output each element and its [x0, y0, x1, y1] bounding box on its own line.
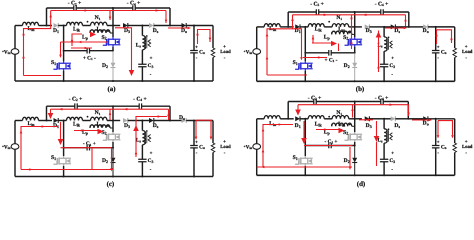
- red current arrow: [59, 55, 62, 58]
- svg-text:+: +: [437, 45, 440, 50]
- wire: red current path: [359, 119, 373, 121]
- capacitor C2: [74, 5, 76, 11]
- wire: red current path: [316, 129, 342, 131]
- red current arrow: [266, 33, 269, 36]
- svg-text:D3: D3: [124, 123, 130, 129]
- wire: red current path: [304, 145, 353, 147]
- wire: red current path: [267, 15, 293, 75]
- diode D2: [112, 148, 114, 158]
- capacitor C4: [133, 5, 135, 11]
- svg-text:+Vin: +Vin: [2, 144, 11, 150]
- wire: red current path: [74, 130, 101, 132]
- wire: red current path: [437, 30, 452, 44]
- svg-text:Ds: Ds: [153, 123, 159, 129]
- switch S2: [103, 42, 107, 45]
- wire: red current path: [109, 109, 111, 120]
- red current arrow (wide): [301, 138, 307, 144]
- red current arrow: [196, 32, 199, 35]
- red current arrow: [20, 130, 23, 133]
- svg-text:S2: S2: [343, 35, 348, 41]
- diode Do: [182, 118, 187, 123]
- wire: input row: [15, 25, 23, 27]
- svg-text:- C4 +: - C4 +: [375, 95, 389, 101]
- svg-text:+: +: [223, 45, 226, 50]
- red current arrow: [407, 113, 410, 116]
- svg-text:+Vin: +Vin: [244, 49, 253, 55]
- diode D1: [295, 24, 300, 29]
- svg-text:+: +: [150, 57, 153, 62]
- switch S1: [295, 66, 299, 69]
- capacitor Co: [432, 51, 440, 53]
- red current arrow (wide): [295, 110, 301, 116]
- svg-text:N1: N1: [336, 15, 342, 21]
- svg-text:+Vin: +Vin: [244, 144, 253, 150]
- svg-text:Ds: Ds: [394, 28, 400, 34]
- red current arrow: [363, 14, 366, 17]
- red current arrow: [49, 14, 52, 17]
- svg-text:Llk: Llk: [73, 121, 81, 127]
- red current arrow (wide): [48, 113, 54, 119]
- svg-text:+: +: [223, 140, 226, 145]
- capacitor C3: [138, 64, 146, 66]
- capacitor Co: [190, 146, 198, 148]
- red current arrow: [135, 151, 138, 154]
- capacitor C1: [329, 50, 331, 56]
- wire: secondary branch: [141, 26, 143, 36]
- red current arrow: [79, 129, 82, 132]
- red current arrow: [195, 137, 198, 140]
- svg-text:Do: Do: [181, 28, 187, 34]
- red current arrow: [435, 33, 438, 36]
- wire: load branch: [454, 119, 456, 143]
- svg-text:S1: S1: [51, 155, 56, 161]
- wire: red current path: [210, 120, 212, 137]
- voltage source Vin: [253, 144, 261, 150]
- resistor Load: [453, 48, 457, 58]
- sub-circuit (a): [2, 1, 231, 93]
- red current arrow: [451, 135, 454, 138]
- wire: red current path: [376, 121, 378, 137]
- red current arrow: [156, 9, 159, 12]
- inductor Lin: [23, 117, 39, 120]
- wire: left vertical with source: [14, 121, 16, 144]
- switch S1: [53, 66, 57, 69]
- svg-text:D3: D3: [366, 123, 372, 129]
- svg-text:D2: D2: [102, 63, 108, 69]
- diode Do: [423, 116, 428, 121]
- wire: red current path: [378, 31, 380, 73]
- svg-text:D1: D1: [53, 28, 59, 34]
- red current arrow: [262, 149, 265, 152]
- svg-text:(b): (b): [356, 86, 364, 93]
- wire: red current path: [293, 29, 302, 58]
- svg-text:Lm: Lm: [338, 122, 346, 128]
- svg-text:S2: S2: [101, 130, 106, 136]
- wire: C1 row: [305, 52, 329, 54]
- inductor Ls (secondary winding): [384, 129, 387, 143]
- wire: red current path: [338, 44, 340, 52]
- wire: red current path: [109, 11, 111, 21]
- red current arrow: [158, 115, 161, 118]
- svg-text:Llk: Llk: [315, 26, 323, 32]
- svg-text:N1: N1: [95, 15, 101, 21]
- wire: top rail with C2 and C4: [288, 11, 316, 13]
- wire: red current path: [437, 121, 439, 135]
- wire: red current path: [72, 34, 82, 46]
- inductor Lin: [264, 24, 280, 27]
- capacitor C4: [139, 103, 141, 109]
- sub-circuit (d): [244, 95, 473, 188]
- red current arrow (wide): [376, 32, 382, 38]
- red current arrow: [368, 119, 371, 122]
- svg-text:- C2 +: - C2 +: [308, 95, 322, 101]
- wire: S1 branch: [304, 27, 306, 61]
- wire: transformer-right vertical: [112, 106, 114, 132]
- svg-text:Lm: Lm: [96, 27, 104, 33]
- red current arrow: [349, 167, 352, 170]
- wire: red current path: [257, 166, 352, 168]
- wire: red current path: [60, 122, 62, 142]
- inductor Ls (secondary winding): [384, 37, 387, 51]
- svg-text:Lm: Lm: [96, 122, 104, 128]
- diode D2: [354, 146, 356, 158]
- svg-text:(d): (d): [357, 181, 365, 188]
- sub-circuit (c): [2, 96, 231, 188]
- wire: S1 branch: [304, 119, 306, 156]
- svg-text:+: +: [465, 140, 468, 145]
- wire: top rail with C2 and C4: [47, 105, 75, 107]
- svg-text:D2: D2: [344, 158, 350, 164]
- wire: red current path: [60, 42, 62, 55]
- wire: red current path: [303, 121, 305, 141]
- red current arrow: [351, 108, 354, 111]
- wire: bottom rail: [15, 176, 213, 178]
- svg-text:+: +: [391, 57, 394, 62]
- wire: red current path: [136, 117, 167, 158]
- wire: red current path: [438, 121, 453, 135]
- capacitor C2: [75, 103, 77, 109]
- red current arrow: [110, 168, 113, 171]
- wire: red current path: [408, 105, 410, 116]
- wire: red current path: [195, 120, 197, 137]
- red current arrow: [404, 27, 407, 30]
- inductor Llk: [67, 117, 83, 120]
- wire: red current path: [376, 142, 378, 166]
- svg-text:Do: Do: [179, 115, 185, 121]
- svg-text:(c): (c): [107, 181, 115, 188]
- svg-text:- C4 +: - C4 +: [127, 1, 141, 7]
- red current arrow: [450, 39, 453, 42]
- svg-text:D3: D3: [366, 28, 372, 34]
- wire: bottom rail: [257, 174, 455, 176]
- red current arrow (wide): [98, 129, 104, 135]
- svg-text:S1: S1: [293, 60, 298, 66]
- wire: load branch: [212, 26, 214, 49]
- wire: S1 branch: [63, 26, 65, 62]
- svg-text:+: +: [150, 152, 153, 157]
- svg-text:Ds: Ds: [394, 123, 400, 129]
- wire: input row: [257, 26, 265, 28]
- resistor Load: [211, 143, 215, 153]
- wire: output cap branch: [435, 119, 437, 146]
- wire: secondary branch: [141, 121, 143, 131]
- svg-text:S2: S2: [101, 35, 106, 41]
- diode D3: [123, 118, 128, 123]
- svg-text:- C4 +: - C4 +: [133, 96, 147, 102]
- wire: left vertical with source: [256, 27, 258, 49]
- transformer N1 primary Lm: [91, 22, 107, 25]
- inductor Llk: [67, 22, 83, 25]
- wire: red current path: [165, 11, 167, 24]
- red current arrow: [78, 41, 81, 44]
- wire: red current path: [21, 127, 58, 170]
- red current arrow: [350, 18, 353, 21]
- red current arrow: [165, 20, 168, 23]
- svg-text:Do: Do: [423, 121, 429, 127]
- transformer N1 primary Lm: [332, 24, 348, 27]
- red current arrow: [71, 38, 74, 41]
- red current arrow: [124, 108, 127, 111]
- wire: red current path: [24, 75, 62, 77]
- wire: transformer-right vertical: [354, 12, 356, 37]
- wire: red current path: [267, 74, 307, 76]
- wire: red current path: [349, 147, 351, 167]
- red current arrow (wide): [331, 41, 337, 47]
- wire: red current path: [61, 41, 109, 43]
- diode D1: [54, 118, 59, 123]
- capacitor C1: [87, 145, 89, 151]
- red current arrow (wide): [129, 70, 135, 76]
- diode D2: [354, 53, 356, 63]
- red current arrow (wide): [339, 128, 345, 134]
- diode D3: [123, 23, 128, 28]
- wire: load branch: [212, 121, 214, 144]
- capacitor C1: [329, 143, 331, 149]
- svg-text:+ C1 -: + C1 -: [325, 57, 338, 63]
- wire: load branch: [454, 27, 456, 48]
- wire: bottom rail: [15, 80, 213, 82]
- red current arrow: [312, 36, 315, 39]
- wire: red current path: [351, 15, 353, 49]
- wire: input row: [257, 118, 265, 120]
- diode D1: [295, 116, 300, 121]
- wire: secondary branch: [383, 119, 385, 129]
- wire: transformer-right vertical: [354, 102, 356, 133]
- wire: red current path: [168, 109, 170, 120]
- red current arrow: [188, 27, 191, 30]
- red current arrow: [404, 18, 407, 21]
- wire: red current path: [115, 28, 132, 70]
- inductor Lin: [264, 116, 280, 119]
- red current arrow: [22, 55, 25, 58]
- red current arrow (wide): [133, 125, 139, 131]
- red current arrow: [350, 43, 353, 46]
- capacitor C4: [381, 99, 383, 105]
- diode D3: [365, 24, 370, 29]
- svg-text:- C4 +: - C4 +: [375, 1, 389, 7]
- wire: red current path: [91, 149, 93, 170]
- wire: red current path: [111, 148, 113, 169]
- wire: left vertical with source: [14, 26, 16, 49]
- wire: red current path: [168, 27, 188, 29]
- wire: red current path: [293, 14, 406, 16]
- svg-text:Lp: Lp: [82, 35, 89, 41]
- wire: red current path: [303, 57, 327, 59]
- wire: red current path: [412, 119, 429, 121]
- capacitor C2: [314, 99, 316, 105]
- red current arrow: [377, 65, 380, 68]
- wire: output cap branch: [435, 27, 437, 51]
- red current arrow: [42, 125, 45, 128]
- diode D2: [112, 51, 114, 63]
- wire: output cap branch: [193, 26, 195, 51]
- svg-text:Lm: Lm: [338, 27, 346, 33]
- red current arrow: [279, 123, 282, 126]
- inductor Lin: [23, 22, 39, 25]
- wire: red current path: [61, 147, 112, 149]
- svg-text:+: +: [195, 140, 198, 145]
- wire: red current path: [312, 42, 335, 44]
- svg-text:Llk: Llk: [315, 121, 323, 127]
- svg-text:Lin: Lin: [269, 121, 277, 127]
- svg-text:N1: N1: [95, 110, 101, 116]
- red current arrow: [437, 135, 440, 138]
- svg-text:- C1 +: - C1 +: [325, 139, 338, 145]
- svg-text:Do: Do: [423, 28, 429, 34]
- red current arrow: [167, 113, 170, 116]
- svg-text:N1: N1: [336, 110, 342, 116]
- capacitor C1: [87, 48, 89, 54]
- transformer winding Lp: [331, 124, 333, 127]
- wire: red current path: [352, 105, 354, 118]
- capacitor Co: [190, 51, 198, 53]
- red current arrow: [109, 112, 112, 115]
- red current arrow: [322, 128, 325, 131]
- wire: input row: [15, 120, 23, 122]
- switch S1: [53, 161, 57, 164]
- switch S1: [295, 161, 299, 164]
- svg-text:(a): (a): [107, 86, 115, 93]
- svg-text:D2: D2: [344, 63, 350, 69]
- wire: red current path: [405, 15, 407, 27]
- red current arrow (wide): [374, 136, 380, 142]
- red current arrow: [390, 103, 393, 106]
- red current arrow: [300, 57, 303, 60]
- capacitor C3: [380, 64, 388, 66]
- voltage source Vin: [11, 49, 19, 55]
- red current arrow: [22, 32, 25, 35]
- svg-text:- C2 +: - C2 +: [310, 1, 324, 7]
- sub-circuit (b): [244, 1, 473, 93]
- transformer N1 primary Lm: [332, 116, 348, 119]
- switch S2: [345, 137, 349, 140]
- wire: red current path: [51, 10, 166, 12]
- wire: transformer-right vertical: [112, 8, 114, 37]
- red current arrow: [85, 47, 88, 50]
- red current arrow: [429, 119, 432, 122]
- wire: red current path: [24, 11, 51, 76]
- red current arrow: [109, 17, 112, 20]
- wire: C1 row: [64, 147, 88, 149]
- wire: S1 branch: [63, 121, 65, 157]
- transformer winding Lp: [89, 126, 91, 129]
- svg-text:+ C1 -: + C1 -: [83, 55, 96, 61]
- diode Ds: [149, 118, 154, 123]
- wire: bottom rail: [257, 80, 455, 82]
- wire: red current path: [298, 104, 409, 106]
- svg-text:D2: D2: [102, 158, 108, 164]
- capacitor Co: [432, 146, 440, 148]
- switch S2: [103, 137, 107, 140]
- svg-text:- C1 +: - C1 +: [83, 141, 96, 147]
- wire: C1 row: [64, 50, 88, 52]
- voltage source Vin: [11, 144, 19, 150]
- resistor Load: [211, 48, 215, 58]
- inductor Ls (secondary winding): [142, 36, 145, 50]
- switch S2: [345, 42, 349, 45]
- transformer N1 primary Lm: [91, 117, 107, 120]
- wire: red current path: [263, 125, 293, 168]
- svg-text:- C2 +: - C2 +: [68, 1, 82, 7]
- capacitor C3: [138, 159, 146, 161]
- transformer winding Lp: [89, 31, 91, 34]
- inductor Ls (secondary winding): [142, 131, 145, 145]
- red current arrow: [209, 38, 212, 41]
- diode Do: [182, 23, 187, 28]
- capacitor C2: [316, 9, 318, 15]
- wire: output cap branch: [193, 121, 195, 146]
- svg-text:Lp: Lp: [324, 35, 331, 41]
- wire: C1 row: [305, 145, 329, 147]
- diode D1: [54, 23, 59, 28]
- wire: top rail with C2 and C4: [47, 7, 74, 9]
- red current arrow: [210, 137, 213, 140]
- red current arrow (wide): [58, 139, 64, 145]
- wire: red current path: [50, 109, 52, 117]
- voltage source Vin: [253, 49, 261, 55]
- red current arrow: [261, 166, 264, 169]
- wire: red current path: [198, 30, 211, 45]
- svg-text:Llk: Llk: [73, 26, 81, 32]
- diode Ds: [149, 23, 154, 28]
- red current arrow: [324, 14, 327, 17]
- wire: red current path: [385, 27, 404, 29]
- inductor Llk: [308, 116, 324, 119]
- capacitor C4: [381, 9, 383, 15]
- red current arrow (wide): [90, 32, 96, 38]
- diode Ds: [391, 116, 396, 121]
- svg-text:S1: S1: [293, 155, 298, 161]
- wire: left vertical with source: [256, 119, 258, 144]
- wire: secondary branch: [383, 27, 385, 37]
- diode Do: [423, 24, 428, 29]
- inductor Llk: [308, 24, 324, 27]
- svg-text:Ds: Ds: [153, 28, 159, 34]
- red current arrow: [316, 56, 319, 59]
- red current arrow: [262, 128, 265, 131]
- svg-text:+: +: [465, 45, 468, 50]
- resistor Load: [453, 143, 457, 153]
- red current arrow: [27, 168, 30, 171]
- red current arrow: [59, 108, 62, 111]
- capacitor C3: [380, 159, 388, 161]
- red current arrow: [266, 56, 269, 59]
- wire: red current path: [196, 119, 212, 121]
- svg-text:+: +: [391, 152, 394, 157]
- svg-text:+: +: [437, 140, 440, 145]
- transformer winding Lp: [331, 32, 333, 35]
- wire: red current path: [297, 105, 299, 113]
